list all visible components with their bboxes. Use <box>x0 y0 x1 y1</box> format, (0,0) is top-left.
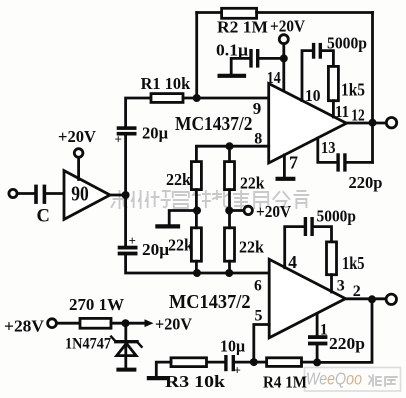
node apex junction <box>122 191 130 199</box>
wire R3 to ground <box>156 362 171 376</box>
resistor 22k lower-left <box>191 228 201 261</box>
svg-text:R2 1M: R2 1M <box>217 17 268 36</box>
svg-text:22k: 22k <box>240 174 265 193</box>
resistor 22k upper-left <box>191 162 201 190</box>
node pin8/22k <box>226 142 234 150</box>
svg-text:+20V: +20V <box>58 127 97 146</box>
wire mid-right to +20V <box>229 209 244 212</box>
wire zener stem <box>124 323 127 368</box>
svg-text:220p: 220p <box>329 334 365 353</box>
node 0.1u junction <box>280 54 288 62</box>
resistor 22k upper-right <box>225 162 235 190</box>
amplifier 90 <box>64 171 110 220</box>
svg-text:+: + <box>115 132 122 147</box>
ground (R3) <box>149 376 165 380</box>
svg-text:+20V: +20V <box>256 202 292 221</box>
+20V terminal (amp 90) <box>74 149 83 158</box>
resistor 22k lower-right <box>225 228 235 261</box>
capacitor C <box>34 185 46 204</box>
svg-text:22k: 22k <box>168 236 194 255</box>
svg-text:5: 5 <box>255 307 263 324</box>
arrow +20V out <box>145 319 154 327</box>
resistor R2 <box>222 8 257 18</box>
wire mid-left to ground <box>169 211 197 225</box>
resistor 1k5 (U1) <box>328 66 338 100</box>
resistor 270 1W <box>80 318 111 328</box>
svg-text:+20V: +20V <box>270 16 306 35</box>
node +20V rail <box>122 319 130 327</box>
svg-text:14: 14 <box>267 68 281 87</box>
wire right rail lower <box>317 299 372 362</box>
wire pin7 down <box>283 155 286 177</box>
wire 5000p to 1k5 (U2) <box>314 227 332 242</box>
wire pin13 down <box>318 138 337 162</box>
diode D1 1N4747 <box>111 337 141 356</box>
wire 22k UR stub <box>228 146 231 161</box>
wire +28V to 270 <box>57 322 81 325</box>
svg-text:WeeQoo: WeeQoo <box>306 369 362 389</box>
capacitor 220p (U2) <box>308 335 327 345</box>
wire 22k UR to node <box>228 190 231 211</box>
svg-text:13: 13 <box>321 138 336 157</box>
ground (divider) <box>157 224 178 228</box>
svg-text:9: 9 <box>253 99 261 118</box>
wire pin1 down <box>316 315 319 335</box>
svg-text:3: 3 <box>337 278 345 295</box>
op-amp U2 MC1437/2 <box>269 259 345 338</box>
wire 0.1u right <box>259 57 284 60</box>
wire node to arrow <box>126 322 147 325</box>
svg-text:+28V: +28V <box>4 316 45 335</box>
wire output U2 <box>346 297 387 300</box>
watermark company text 杭州将睿科技有限公司 <box>112 191 309 208</box>
capacitor 20u lower <box>118 246 138 256</box>
wire output U1 <box>347 122 387 125</box>
svg-text:10μ: 10μ <box>220 337 245 356</box>
svg-text:270 1W: 270 1W <box>69 295 124 314</box>
wire 1k5 to pin3 <box>330 275 333 292</box>
wire R3 to 10u <box>207 361 225 364</box>
op-amp U1 MC1437/2 <box>269 84 347 164</box>
svg-text:R3 10k: R3 10k <box>165 372 226 391</box>
node mid-left <box>193 207 201 215</box>
resistor 1k5 (U2) <box>327 242 337 275</box>
wire 220p to bottom <box>316 346 319 363</box>
wire R4 left stub <box>254 361 267 364</box>
wire 22k LR top stub <box>228 211 231 228</box>
ground (zener) <box>118 368 134 372</box>
+28V terminal <box>48 319 57 328</box>
+20V terminal (divider) <box>244 206 252 214</box>
svg-text:6: 6 <box>254 278 262 295</box>
capacitor 20u upper <box>117 126 137 135</box>
svg-text:11: 11 <box>335 102 349 121</box>
capacitor 0.1u <box>249 49 259 68</box>
wire pin4 up <box>285 227 304 268</box>
wire left rail top + R1 row <box>126 98 151 126</box>
svg-text:1N4747: 1N4747 <box>65 336 111 353</box>
node R1/R2/pin9 <box>193 94 201 102</box>
svg-text:C: C <box>37 207 50 227</box>
wire rail bottom to pin6 row <box>126 255 270 273</box>
svg-text:1k5: 1k5 <box>341 80 365 100</box>
svg-text:MC1437/2: MC1437/2 <box>169 292 251 313</box>
svg-text:1k5: 1k5 <box>342 253 365 273</box>
ground (0.1u) <box>220 74 244 78</box>
wire C to amp <box>46 192 64 195</box>
node mid-right <box>225 207 233 215</box>
wire input to C <box>17 192 34 195</box>
wire R4 right stub <box>302 361 318 364</box>
node bottom-right <box>225 269 233 277</box>
svg-text:22k: 22k <box>166 170 192 189</box>
wire amp apex to rail <box>110 194 126 197</box>
capacitor 10u <box>224 355 235 371</box>
wire 10u to node <box>235 361 254 364</box>
wire 0.1u to ground <box>231 58 249 73</box>
+20V terminal (op1) <box>279 35 288 44</box>
node pin5/R4/10u <box>250 358 258 366</box>
capacitor 5000p (U1) <box>312 43 322 59</box>
input terminal J1 <box>9 189 17 197</box>
svg-text:MC1437/2: MC1437/2 <box>175 114 253 135</box>
capacitor 220p (U1) <box>336 153 346 171</box>
wire pin10 up <box>302 51 312 101</box>
wire pin8 row <box>196 146 268 161</box>
svg-text:220p: 220p <box>349 173 383 192</box>
svg-text:+20V: +20V <box>155 315 193 334</box>
wire R2 vertical <box>195 13 198 99</box>
wire 22k LL top stub <box>195 211 198 228</box>
svg-text:22k: 22k <box>239 238 265 257</box>
wire 22k LR bottom stub <box>228 261 231 273</box>
svg-text:8: 8 <box>254 130 262 147</box>
wire R1 to node <box>183 97 197 100</box>
wire 220p to rail <box>347 161 373 164</box>
node output U2 <box>368 295 376 303</box>
svg-text:5000p: 5000p <box>317 206 357 225</box>
svg-text:+: + <box>129 233 136 248</box>
wire 270 to node <box>111 322 126 325</box>
svg-text:0.1μ: 0.1μ <box>216 41 248 60</box>
ground (pin7) <box>278 177 294 181</box>
svg-text:R4 1M: R4 1M <box>263 373 307 392</box>
wire top row right <box>257 11 373 14</box>
svg-text:R1 10k: R1 10k <box>141 74 191 93</box>
wire 1k5 to pin11 <box>332 101 335 117</box>
wire 22k UL to node <box>195 190 198 211</box>
wire +20V to amp <box>77 157 80 179</box>
watermark 维库 glyphs <box>369 375 397 386</box>
node output U1 <box>369 119 377 127</box>
wire right rail upper <box>371 13 374 163</box>
wire top row left <box>197 11 222 14</box>
wire 5000p to 1k5 <box>322 51 333 67</box>
svg-text:4: 4 <box>288 252 297 272</box>
svg-text:10: 10 <box>305 86 321 105</box>
output terminal U1 <box>386 118 396 128</box>
resistor R1 <box>151 94 183 103</box>
wire pin9 <box>197 97 269 100</box>
resistor R4 <box>267 358 302 367</box>
wire rail mid <box>124 136 127 246</box>
node 220p/R4 <box>313 358 321 366</box>
svg-text:20μ: 20μ <box>142 240 169 259</box>
svg-text:20μ: 20μ <box>142 124 168 143</box>
svg-text:+: + <box>234 363 241 378</box>
node bottom-left <box>193 269 201 277</box>
wire 22k LL bottom stub <box>195 261 198 273</box>
wire +20V to pin14 <box>282 44 285 92</box>
output terminal U2 <box>386 294 396 304</box>
svg-text:7: 7 <box>289 153 298 173</box>
svg-text:90: 90 <box>71 182 89 206</box>
wire pin5 <box>254 325 269 363</box>
capacitor 5000p (U2) <box>304 217 314 236</box>
watermark WeeQoo badge <box>305 368 401 392</box>
resistor R3 <box>171 358 207 367</box>
